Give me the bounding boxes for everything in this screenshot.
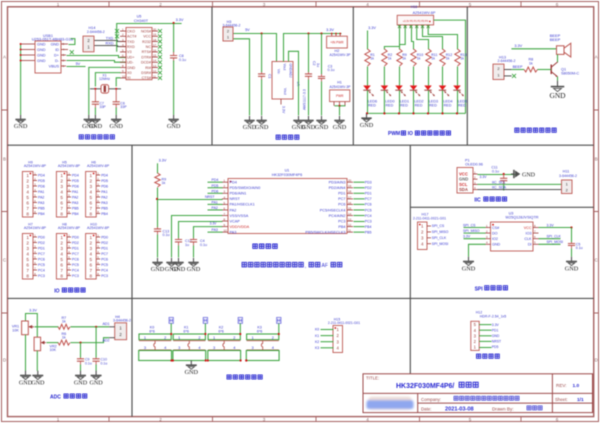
svg-text:A2541WV-8P: A2541WV-8P	[58, 164, 81, 168]
svg-text:2-211-0411-0021-G01: 2-211-0411-0021-G01	[413, 217, 446, 221]
svg-text:NRST: NRST	[230, 197, 241, 201]
svg-text:1: 1	[178, 335, 180, 340]
svg-text:4: 4	[366, 2, 369, 7]
svg-text:A2541WV-8P: A2541WV-8P	[87, 226, 110, 230]
svg-text:PD6: PD6	[212, 189, 219, 193]
wire USB D+ to U5 UD+	[61, 54, 66, 56]
wire U3 GND pin to ground	[469, 244, 486, 256]
svg-text:GND: GND	[315, 124, 329, 131]
svg-text:PD4: PD4	[212, 178, 219, 182]
svg-text:3.3V: 3.3V	[547, 223, 555, 227]
no-connect X marks U5 pins 1-2	[115, 29, 119, 33]
svg-text:RI#: RI#	[145, 66, 152, 70]
ground U5 pin8	[88, 115, 90, 120]
svg-text:A2541WV-8P: A2541WV-8P	[24, 164, 47, 168]
svg-text:PB4: PB4	[101, 212, 108, 216]
svg-text:CLK: CLK	[524, 237, 532, 241]
svg-text:Company:: Company:	[421, 397, 441, 402]
svg-text:PA1: PA1	[212, 200, 218, 204]
svg-text:TXD: TXD	[127, 40, 135, 44]
net flag above K2	[238, 317, 242, 323]
capacitor C5 0.1u	[571, 228, 573, 243]
node C11 tap	[503, 173, 505, 175]
svg-text:6: 6	[90, 201, 93, 206]
svg-text:IO: IO	[54, 289, 59, 295]
svg-text:PA3: PA3	[101, 201, 107, 205]
svg-text:PD2: PD2	[365, 186, 372, 190]
svg-text:A2541WV-8P: A2541WV-8P	[58, 226, 81, 230]
svg-text:GND: GND	[37, 48, 46, 52]
transistor Q1 S8050M-C	[550, 65, 552, 75]
resistor R6 1k	[58, 340, 70, 345]
wire USB D- to U5 UD-	[61, 60, 66, 62]
svg-text:1: 1	[26, 235, 29, 240]
svg-text:3: 3	[213, 345, 215, 350]
capacitor C12 1u	[178, 238, 180, 240]
svg-text:3.3V: 3.3V	[514, 44, 522, 48]
svg-text:2: 2	[272, 335, 274, 340]
svg-text:PD4: PD4	[38, 173, 45, 177]
svg-text:4: 4	[366, 417, 369, 422]
svg-text:4: 4	[26, 252, 29, 257]
svg-text:GND: GND	[255, 124, 269, 131]
node C9 tap	[79, 342, 81, 344]
svg-text:5: 5	[90, 195, 93, 200]
wire U1 left pin PA1	[208, 203, 223, 205]
svg-text:13: 13	[153, 64, 157, 68]
svg-text:17: 17	[153, 43, 157, 47]
svg-text:3: 3	[90, 184, 93, 189]
svg-text:RED: RED	[400, 103, 408, 107]
svg-text:VSS/VSSA: VSS/VSSA	[230, 214, 249, 218]
svg-text:PC5: PC5	[365, 208, 372, 212]
svg-text:3.3V: 3.3V	[480, 175, 488, 179]
svg-text:0.1u: 0.1u	[179, 58, 186, 62]
svg-text:6: 6	[60, 263, 63, 268]
wire 3.3V to R1	[367, 31, 369, 50]
svg-text:5V: 5V	[245, 28, 250, 32]
wire U4 GND tab loop to ground	[289, 51, 299, 115]
wire flag to K1	[204, 323, 206, 334]
svg-text:CKO: CKO	[127, 29, 135, 33]
svg-text:GND: GND	[51, 42, 60, 46]
svg-text:4: 4	[60, 252, 63, 257]
svg-text:A2541WV-8P: A2541WV-8P	[87, 164, 110, 168]
svg-text:8: 8	[26, 274, 29, 279]
wire P1 VCC to 3.3V / C11 / sideways ground	[478, 174, 516, 176]
ground under C4	[193, 258, 195, 263]
svg-text:PA3: PA3	[72, 201, 78, 205]
svg-text:2: 2	[60, 179, 63, 184]
led LED5	[457, 67, 459, 86]
svg-text:8: 8	[60, 212, 63, 217]
svg-text:1k: 1k	[62, 336, 66, 340]
svg-text:PD6/AIN1: PD6/AIN1	[230, 192, 247, 196]
svg-text:PA2: PA2	[72, 195, 78, 199]
capacitor C11 0.1u	[503, 174, 505, 178]
svg-text:14: 14	[153, 59, 157, 63]
title block frame	[363, 374, 593, 413]
node C2 tap	[307, 32, 309, 34]
svg-text:IIC: IIC	[474, 198, 481, 204]
svg-text:PD6: PD6	[101, 184, 108, 188]
svg-text:V3: V3	[127, 50, 132, 54]
svg-text:CS#: CS#	[492, 226, 500, 230]
svg-text:RED: RED	[429, 103, 437, 107]
svg-text:GND: GND	[37, 42, 46, 46]
svg-text:GND: GND	[522, 172, 536, 178]
svg-text:A2541WV-3P: A2541WV-3P	[329, 53, 351, 57]
ground under C6	[115, 115, 117, 120]
svg-text:1.0: 1.0	[573, 383, 580, 389]
ground under C13	[157, 258, 159, 263]
svg-text:GND: GND	[333, 124, 347, 131]
svg-text:K1: K1	[315, 334, 319, 338]
svg-text:PC7: PC7	[101, 252, 108, 256]
svg-text:33P: 33P	[120, 105, 127, 109]
svg-text:8: 8	[60, 274, 63, 279]
svg-text:PD1: PD1	[38, 246, 45, 250]
svg-text:GND: GND	[302, 124, 316, 131]
wire AD1 row to H4	[71, 326, 110, 328]
node rail junction	[383, 112, 385, 114]
svg-text:3: 3	[26, 246, 29, 251]
svg-text:NRST: NRST	[492, 340, 501, 344]
svg-text:6*6: 6*6	[149, 329, 155, 333]
svg-text:GND: GND	[492, 243, 501, 247]
capacitor C3	[321, 34, 323, 75]
ground under C9	[80, 371, 82, 376]
svg-text:A2541WV-6P: A2541WV-6P	[413, 11, 436, 15]
ground VR2	[37, 371, 39, 376]
resistor R11	[426, 49, 431, 66]
wire USB GND pin5	[61, 43, 68, 45]
svg-text:1k: 1k	[460, 57, 464, 61]
regulator U4 AMS1117-3.3	[272, 62, 293, 100]
svg-text:2: 2	[60, 241, 63, 246]
svg-text:3.3V: 3.3V	[326, 28, 334, 32]
svg-text:GND: GND	[492, 334, 500, 338]
svg-text:20: 20	[348, 179, 352, 183]
svg-text:K2: K2	[315, 340, 319, 344]
wire H14 to U5 TXD	[95, 40, 127, 41]
svg-text:0.1u: 0.1u	[85, 361, 92, 365]
node rail junction	[441, 112, 443, 114]
svg-text:SPI_MISO: SPI_MISO	[463, 229, 480, 233]
svg-text:3.3V: 3.3V	[159, 159, 167, 163]
svg-text:RED: RED	[458, 103, 466, 107]
svg-text:PC5: PC5	[38, 263, 45, 267]
svg-text:0.1u: 0.1u	[200, 243, 207, 247]
svg-text:1: 1	[90, 173, 93, 178]
svg-text:PB5: PB5	[72, 206, 79, 210]
wire U1 left pin PA3	[208, 231, 223, 233]
svg-text:PA3: PA3	[212, 228, 218, 232]
wire speaker to Q1 collector	[557, 54, 559, 62]
wire H15 pin 1	[321, 335, 334, 337]
no-connect X on USB ID pin	[61, 49, 68, 51]
svg-text:K0: K0	[315, 328, 319, 332]
net flag above K0	[169, 317, 173, 323]
svg-text:HK32F030MF4P6: HK32F030MF4P6	[272, 173, 302, 177]
svg-text:0.1u: 0.1u	[576, 246, 583, 250]
wire flag to K2	[239, 323, 241, 334]
svg-text:PC4: PC4	[101, 268, 108, 272]
svg-text:PC3: PC3	[101, 274, 108, 278]
ground under C1	[261, 116, 263, 121]
wire AD2 row to H4	[71, 338, 110, 343]
wire U1 VDD 3.3V and C4	[194, 227, 223, 239]
svg-text:12: 12	[153, 69, 157, 73]
wire U1 VSS to ground	[172, 216, 223, 258]
svg-text:A2541WV-8P: A2541WV-8P	[24, 226, 47, 230]
svg-text:R232: R232	[142, 40, 151, 44]
svg-text:HDR-F-2.54_1x5: HDR-F-2.54_1x5	[480, 315, 507, 319]
svg-text:PC4/AIN2: PC4/AIN2	[329, 214, 346, 218]
wire U1 VCAP to C12	[179, 222, 223, 239]
ground under C2	[308, 116, 310, 121]
node crystal right	[115, 88, 117, 90]
svg-text:6: 6	[26, 201, 29, 206]
svg-text:2-644456-2: 2-644456-2	[87, 30, 105, 34]
wire H1 to ground	[335, 105, 346, 107]
section title: key test circuit	[227, 375, 231, 379]
svg-text:17: 17	[348, 195, 352, 199]
wire U3 DI	[539, 243, 561, 245]
svg-text:3.3V: 3.3V	[368, 26, 376, 30]
wire H12 pin 1	[479, 347, 491, 349]
led LED2	[413, 67, 415, 86]
wire U1 left pin PD6	[208, 192, 223, 194]
node rail junction	[456, 112, 458, 114]
svg-text:11: 11	[153, 74, 156, 78]
svg-text:PA1: PA1	[101, 190, 107, 194]
svg-text:PA3: PA3	[230, 230, 237, 234]
node 3.3V junction	[173, 22, 175, 24]
svg-text:PA1: PA1	[38, 190, 44, 194]
potentiometer VR1 10K	[22, 321, 29, 335]
speaker LS1	[557, 46, 565, 55]
resistor R13	[455, 49, 460, 66]
svg-text:5: 5	[60, 257, 63, 262]
svg-text:HK32F030MF4P6/: HK32F030MF4P6/	[396, 383, 454, 390]
svg-text:PB4: PB4	[72, 212, 79, 216]
svg-text:DO: DO	[492, 232, 498, 236]
wire H15 pin 2	[321, 341, 334, 343]
section title: serial port test circuit	[79, 135, 83, 139]
capacitor C8	[173, 24, 175, 53]
svg-text:RED: RED	[444, 103, 452, 107]
svg-text:3: 3	[263, 417, 266, 422]
wire Q1 emitter to ground	[557, 77, 559, 81]
svg-text:6: 6	[90, 263, 93, 268]
node rail junction	[427, 112, 429, 114]
svg-text:DCD#: DCD#	[141, 61, 152, 65]
svg-text:PD4: PD4	[230, 181, 237, 185]
wire U1 right pin PD2	[354, 187, 365, 189]
capacitor C4 0.1u	[193, 238, 195, 240]
svg-text:5V: 5V	[76, 62, 81, 66]
svg-text:3: 3	[60, 246, 63, 251]
svg-text:NOS#: NOS#	[141, 29, 152, 33]
node rail junction	[412, 112, 414, 114]
ground U3	[468, 257, 470, 262]
svg-text:Vin: Vin	[277, 69, 281, 74]
led LED0	[383, 67, 385, 86]
svg-text:RED: RED	[368, 103, 376, 107]
wire U3 CLK	[539, 238, 561, 240]
wire VR2 wiper to R6	[47, 342, 59, 344]
wire 5V rail	[234, 34, 277, 62]
svg-text:RXD: RXD	[127, 45, 135, 49]
wire H13 pin2 to R8	[504, 69, 512, 71]
svg-text:PD2/AIN4: PD2/AIN4	[329, 186, 346, 190]
svg-text:12MHz: 12MHz	[99, 77, 110, 81]
ground VR1	[25, 371, 27, 376]
svg-text:VDD/VDDA: VDD/VDDA	[230, 225, 250, 229]
svg-text:NC: NC	[146, 45, 152, 49]
svg-text:PD1: PD1	[72, 246, 79, 250]
svg-text:16: 16	[153, 48, 157, 52]
wire USB1 left pins to GND rail	[20, 45, 22, 115]
wire U1 right pin PC6	[354, 203, 365, 205]
H16 pin stubs and no-connect marks	[399, 25, 401, 28]
capacitor C6	[115, 89, 117, 102]
svg-text:PB5: PB5	[101, 206, 108, 210]
wire U3 left CS#	[464, 227, 486, 229]
svg-text:1: 1	[252, 335, 254, 340]
svg-text:1k: 1k	[62, 320, 66, 324]
capacitor C9 0.1u	[80, 343, 82, 358]
wire flag to K0	[170, 323, 172, 334]
svg-text:PA2: PA2	[101, 195, 107, 199]
svg-text:GND: GND	[31, 381, 45, 387]
svg-text:PA2: PA2	[38, 195, 44, 199]
led LED6	[367, 67, 369, 86]
svg-text:11: 11	[348, 229, 351, 233]
ground under C12	[178, 258, 180, 263]
svg-text:UD-: UD-	[127, 61, 134, 65]
svg-text:PD0: PD0	[38, 235, 45, 239]
svg-text:VCC: VCC	[143, 35, 151, 39]
node NRST junction	[156, 198, 158, 200]
svg-text:1k: 1k	[388, 57, 392, 61]
svg-text:33P: 33P	[100, 105, 107, 109]
svg-text:X0: X0	[127, 71, 132, 75]
svg-text:1: 1	[213, 335, 215, 340]
svg-text:4: 4	[90, 252, 93, 257]
capacitor C2	[308, 34, 310, 73]
svg-text:13: 13	[348, 217, 352, 221]
wire U3 VCC to 3.3V and C5	[539, 227, 572, 229]
svg-text:GND: GND	[89, 381, 103, 387]
svg-text:PWR: PWR	[336, 94, 344, 98]
ground under C10	[95, 371, 97, 376]
net label 3.3V on U4 output tab	[280, 99, 282, 105]
wire U1 right pin PC7	[354, 198, 365, 200]
note: all peripherals use independent blocks for AF	[242, 262, 246, 266]
svg-text:3.3V: 3.3V	[463, 235, 471, 239]
svg-text:BEEP: BEEP	[550, 37, 561, 42]
wire NRST to U1	[158, 199, 223, 201]
node C1 tap	[261, 32, 263, 34]
svg-text:12: 12	[348, 223, 352, 227]
ground USB left	[20, 115, 22, 120]
svg-text:AD2: AD2	[103, 338, 110, 342]
ground keys rail	[190, 360, 192, 365]
svg-text:3: 3	[60, 184, 63, 189]
wire U1 left pin PA2	[208, 209, 223, 211]
svg-text:0.1u: 0.1u	[492, 169, 499, 173]
svg-text:RTS#: RTS#	[142, 50, 152, 54]
svg-text:3.3V: 3.3V	[29, 309, 37, 313]
ground under C3	[321, 116, 323, 121]
svg-text:PD3: PD3	[365, 181, 372, 185]
wire 3.3V to speaker	[511, 48, 556, 50]
svg-text:U253-051T-4BH83-G1B: U253-051T-4BH83-G1B	[32, 36, 74, 41]
resistor R9 10k NRST pullup	[157, 163, 159, 173]
svg-text:AD1: AD1	[103, 322, 110, 326]
svg-text:3-644456-2: 3-644456-2	[113, 319, 131, 323]
svg-text:1k: 1k	[529, 61, 533, 65]
ground under C8	[173, 115, 175, 120]
led LED1	[399, 67, 401, 86]
svg-text:S8050M-C: S8050M-C	[561, 71, 579, 75]
svg-text:ACT#: ACT#	[127, 35, 137, 39]
svg-text:REV:: REV:	[556, 383, 567, 388]
svg-text:PC7: PC7	[338, 197, 345, 201]
wire U5 XI to crystal	[116, 78, 120, 87]
wire H16 return to bottom rail	[434, 20, 466, 113]
svg-text:0.1u: 0.1u	[101, 361, 108, 365]
svg-text:PC6: PC6	[72, 257, 79, 261]
svg-text:1k: 1k	[162, 181, 166, 185]
svg-text:1: 1	[57, 2, 60, 7]
no-connect X on H13 pin1	[504, 75, 512, 77]
svg-text:8: 8	[26, 212, 29, 217]
wire VR2 bottom to ground	[36, 351, 38, 371]
svg-text:GND: GND	[151, 266, 165, 273]
svg-text:2: 2	[90, 241, 93, 246]
svg-text:4: 4	[60, 190, 63, 195]
svg-text:VCAP: VCAP	[230, 219, 241, 223]
svg-text:19: 19	[153, 33, 157, 37]
wire VR1 bottom to ground	[25, 335, 27, 371]
wire U1 right pin PC3	[354, 221, 365, 223]
svg-text:PD1: PD1	[492, 328, 499, 332]
node C3 tap	[320, 32, 322, 34]
wire U1 right pin PC5	[354, 209, 365, 211]
resistor R2	[382, 49, 387, 66]
svg-text:SDA: SDA	[459, 187, 468, 192]
svg-text:IIC_SCL: IIC_SCL	[492, 180, 506, 184]
wire P1 SDA to H11	[478, 189, 562, 191]
svg-text:1k: 1k	[446, 57, 450, 61]
svg-text:2: 2	[90, 179, 93, 184]
svg-text:RXD: RXD	[105, 42, 113, 46]
svg-text:C1: C1	[268, 74, 272, 79]
svg-text:GND: GND	[565, 266, 579, 273]
svg-text:AMS1117-3.3: AMS1117-3.3	[303, 89, 307, 110]
svg-text:6: 6	[26, 263, 29, 268]
svg-text:3.3V: 3.3V	[492, 323, 500, 327]
svg-text:6*6: 6*6	[257, 329, 263, 333]
section title: power supply circuit	[276, 135, 280, 139]
resistor R1	[365, 49, 370, 66]
svg-text:PD0: PD0	[101, 235, 108, 239]
svg-text:K3: K3	[315, 346, 319, 350]
svg-text:5: 5	[469, 2, 472, 7]
